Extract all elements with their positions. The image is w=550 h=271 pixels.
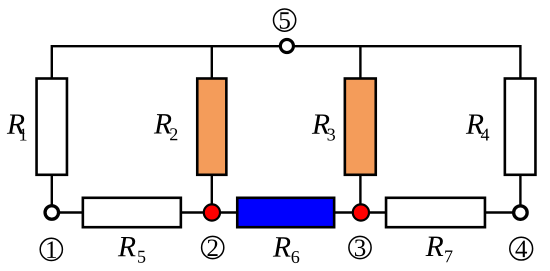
resistor R2 xyxy=(197,79,226,175)
label node 1 xyxy=(40,238,62,260)
wire R2 bottom lead xyxy=(211,175,213,213)
label node 4 xyxy=(510,237,533,260)
wire node 1 to R5 xyxy=(58,211,83,213)
resistor R5 xyxy=(83,198,181,227)
label node 5 xyxy=(274,9,296,31)
node 1 terminal xyxy=(45,206,59,220)
wire R2 top lead xyxy=(211,46,213,78)
wire top rail xyxy=(52,46,521,78)
label node 2 xyxy=(202,236,224,258)
node 5 terminal xyxy=(280,39,293,52)
wire R3 top lead xyxy=(359,46,361,78)
label node 3 xyxy=(349,236,371,258)
label R7 xyxy=(426,237,453,263)
resistor R6 xyxy=(237,198,334,227)
wire R6 to node 3 xyxy=(334,211,361,213)
label R3 xyxy=(312,114,335,140)
wire R4 bottom lead xyxy=(519,175,521,206)
label R2 xyxy=(154,114,177,140)
resistor R7 xyxy=(386,198,485,227)
node 3 junction xyxy=(353,204,369,220)
resistor R4 xyxy=(505,79,536,175)
wire R5 to node 2 xyxy=(181,211,212,213)
label R4 xyxy=(466,114,489,140)
node 4 terminal xyxy=(514,206,528,220)
label R6 xyxy=(273,237,299,263)
node 2 junction xyxy=(204,204,220,220)
wire R1 bottom lead xyxy=(51,175,53,206)
resistor R3 xyxy=(345,79,376,175)
wire node 2 to R6 xyxy=(212,211,238,213)
label R5 xyxy=(118,237,145,263)
wire R7 to node 4 xyxy=(485,211,514,213)
wire R3 bottom lead xyxy=(359,175,361,213)
resistor R1 xyxy=(37,79,67,175)
label R1 xyxy=(7,114,27,140)
wire node 3 to R7 xyxy=(361,211,387,213)
